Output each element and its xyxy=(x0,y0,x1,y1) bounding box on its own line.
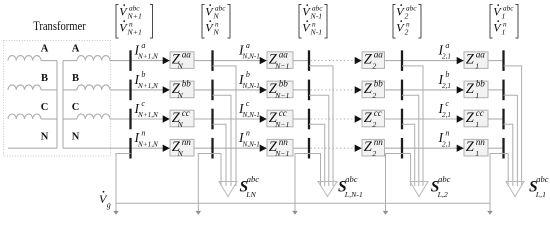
current flow arrowhead phase n section 2 xyxy=(260,145,267,152)
impedance box Zaa N−1 xyxy=(267,49,293,70)
svg-text:c: c xyxy=(246,99,250,108)
svg-text:N: N xyxy=(177,120,184,129)
wire phase a from Z box to next node bus section 1 xyxy=(194,60,213,62)
svg-text:N,N-1: N,N-1 xyxy=(242,140,260,148)
svg-text:cc: cc xyxy=(374,108,382,118)
load tap wire phase a to load SL,2 xyxy=(402,66,423,186)
svg-text:abc: abc xyxy=(536,174,549,184)
wire phase n from node bus to Z box section 2 xyxy=(213,147,268,149)
current flow arrowhead phase c section 4 xyxy=(457,115,464,122)
svg-text:cc: cc xyxy=(279,108,287,118)
bus bar node 1 phase c xyxy=(502,109,504,130)
svg-text:N−1: N−1 xyxy=(274,149,289,158)
bus bar node N+1 phase a xyxy=(129,50,131,71)
wire secondary A coil to node N+1 xyxy=(110,60,131,62)
bus bar node N+1 phase b xyxy=(129,80,131,101)
svg-text:N−1: N−1 xyxy=(274,91,289,100)
svg-text:N: N xyxy=(177,91,184,100)
current label In N+1,N xyxy=(134,128,160,148)
svg-text:N−1: N−1 xyxy=(274,120,289,129)
svg-text:2,1: 2,1 xyxy=(442,140,451,148)
impedance box Zaa 2 xyxy=(362,49,385,70)
wire phase c from Z box to next node bus section 1 xyxy=(194,118,213,120)
ground drop wire at node 1 xyxy=(490,154,504,212)
ground drop wire at node N+1 xyxy=(116,154,131,212)
svg-text:2,1: 2,1 xyxy=(442,53,451,61)
ground drop wire at node N-1 xyxy=(295,154,309,212)
current label Ic 2,1 xyxy=(438,99,451,119)
wire secondary C coil to node N+1 xyxy=(110,118,131,120)
svg-text:N+1: N+1 xyxy=(127,27,142,36)
svg-text:1: 1 xyxy=(475,120,479,129)
current flow arrowhead phase n section 3 xyxy=(355,145,362,152)
svg-text:bb: bb xyxy=(182,79,192,89)
svg-text:N,N-1: N,N-1 xyxy=(242,111,260,119)
load power label SL,2 xyxy=(431,174,451,199)
wire phase n from node bus to Z box section 1 xyxy=(131,147,171,149)
svg-text:N−1: N−1 xyxy=(274,62,289,71)
svg-text:2,1: 2,1 xyxy=(442,82,451,90)
current label Ia N+1,N xyxy=(134,41,160,61)
wire phase c from Z box to next node bus section 4 xyxy=(488,118,504,120)
current label Ib N,N-1 xyxy=(238,70,260,90)
svg-text:N,N-1: N,N-1 xyxy=(242,53,260,61)
current flow arrowhead phase n section 4 xyxy=(457,145,464,152)
wire phase c from Z box to next node bus section 2 xyxy=(293,118,309,120)
svg-text:Z: Z xyxy=(466,52,475,68)
wire phase a dotted continuation node N-1 toward node 2 xyxy=(311,60,357,62)
wire secondary star point to A coil xyxy=(63,60,77,62)
wire secondary B coil to node N+1 xyxy=(110,89,131,91)
svg-text:aa: aa xyxy=(374,49,384,59)
svg-text:N,N-1: N,N-1 xyxy=(242,82,260,90)
current flow arrowhead phase a section 4 xyxy=(457,57,464,64)
svg-text:1: 1 xyxy=(475,149,479,158)
impedance box Zaa 1 xyxy=(464,49,488,70)
wire phase b from node bus to Z box section 4 xyxy=(402,89,464,91)
current label Ib N+1,N xyxy=(134,70,160,90)
svg-text:g: g xyxy=(107,201,111,210)
bus bar node N phase b xyxy=(211,80,213,101)
wire phase n from Z box to next node bus section 3 xyxy=(385,147,403,149)
svg-text:nn: nn xyxy=(374,137,384,147)
wire phase a from node bus to Z box section 2 xyxy=(213,60,268,62)
svg-text:bb: bb xyxy=(476,79,486,89)
svg-text:c: c xyxy=(141,99,145,108)
wire phase a from Z box to next node bus section 3 xyxy=(385,60,403,62)
svg-text:b: b xyxy=(445,70,449,79)
node voltage vector [Vabc Vn] node 2 xyxy=(393,3,421,38)
wire phase c from Z box to next node bus section 3 xyxy=(385,118,403,120)
wire phase n from Z box to next node bus section 4 xyxy=(488,147,504,149)
wire primary neutral N xyxy=(8,147,57,149)
load triangle SLN xyxy=(219,182,237,197)
current flow arrowhead phase c section 1 xyxy=(163,115,170,122)
impedance box Zcc 1 xyxy=(464,108,488,129)
bus bar node 2 phase n xyxy=(401,138,403,159)
current label Ic N,N-1 xyxy=(238,99,260,119)
wire phase b from Z box to next node bus section 2 xyxy=(293,89,309,91)
svg-text:A: A xyxy=(72,44,80,55)
svg-text:a: a xyxy=(445,41,449,50)
transformer primary winding C xyxy=(8,114,41,119)
svg-text:1: 1 xyxy=(502,27,506,36)
node voltage vector [Vabc Vn] node N-1 xyxy=(299,3,327,38)
bus bar node N+1 phase c xyxy=(129,109,131,130)
current flow arrowhead phase b section 1 xyxy=(163,86,170,93)
svg-text:cc: cc xyxy=(182,108,190,118)
svg-text:aa: aa xyxy=(476,49,486,59)
ground arrow at node N+1 xyxy=(113,211,119,215)
ground drop wire at node N xyxy=(198,154,212,212)
svg-text:L,N-1: L,N-1 xyxy=(344,190,363,199)
svg-text:n: n xyxy=(141,128,145,137)
load tap wire phase b to load SL,1 xyxy=(504,95,518,186)
svg-text:nn: nn xyxy=(476,137,486,147)
wire phase b from Z box to next node bus section 4 xyxy=(488,89,504,91)
ground arrow at node N-1 xyxy=(292,211,298,215)
svg-text:bb: bb xyxy=(279,79,289,89)
bus bar node N-1 phase c xyxy=(308,109,310,130)
wire phase n from node bus to Z box section 4 xyxy=(402,147,464,149)
svg-text:Transformer: Transformer xyxy=(33,19,86,33)
wire phase b from node bus to Z box section 2 xyxy=(213,89,268,91)
bus bar node N+1 phase n xyxy=(129,138,131,159)
impedance box Znn 2 xyxy=(362,137,385,158)
wire phase a from node bus to Z box section 4 xyxy=(402,60,464,62)
bus bar node N phase n xyxy=(211,138,213,159)
svg-text:abc: abc xyxy=(438,174,451,184)
load tap wire phase n to load SL,N-1 xyxy=(309,154,321,187)
ground arrow at node 1 xyxy=(487,211,493,215)
transformer primary winding A xyxy=(8,56,41,61)
source ground voltage label Vg xyxy=(99,191,111,210)
svg-text:aa: aa xyxy=(182,49,192,59)
transformer dotted enclosure box xyxy=(4,41,111,157)
transformer secondary winding C xyxy=(77,114,110,119)
impedance box Zcc N xyxy=(170,108,194,129)
svg-text:N: N xyxy=(213,27,220,36)
svg-text:c: c xyxy=(445,99,449,108)
wire phase n from Z box to next node bus section 2 xyxy=(293,147,309,149)
svg-text:abc: abc xyxy=(345,174,358,184)
current label Ib 2,1 xyxy=(438,70,451,90)
load triangle SL,2 xyxy=(410,182,428,197)
wire phase c from node bus to Z box section 2 xyxy=(213,118,268,120)
load tap wire phase b to load SL,2 xyxy=(402,95,419,186)
svg-text:nn: nn xyxy=(182,137,192,147)
impedance box Zaa N xyxy=(170,49,194,70)
svg-text:Z: Z xyxy=(466,110,475,126)
load tap wire phase c to load SLN xyxy=(213,124,227,186)
wire phase b dotted continuation node N-1 toward node 2 xyxy=(311,89,357,91)
current label In N,N-1 xyxy=(238,128,260,148)
bus bar node 2 phase c xyxy=(401,109,403,130)
load tap wire phase c to load SL,1 xyxy=(504,124,513,186)
svg-text:N+1,N: N+1,N xyxy=(137,82,159,90)
svg-text:C: C xyxy=(72,102,80,113)
bus bar node 1 phase a xyxy=(502,50,504,71)
wire primary A coil to star point xyxy=(41,60,57,62)
svg-text:N-1: N-1 xyxy=(310,27,323,36)
svg-text:2: 2 xyxy=(372,120,376,129)
svg-text:b: b xyxy=(141,70,145,79)
svg-text:1: 1 xyxy=(475,62,479,71)
svg-text:N: N xyxy=(177,149,184,158)
svg-text:abc: abc xyxy=(247,174,259,184)
svg-text:B: B xyxy=(41,73,48,84)
wire phase b from Z box to next node bus section 3 xyxy=(385,89,403,91)
current label Ic N+1,N xyxy=(134,99,160,119)
wire phase n dotted continuation node N-1 toward node 2 xyxy=(311,147,357,149)
load triangle SL,1 xyxy=(506,182,524,197)
bus bar node 1 phase n xyxy=(502,138,504,159)
neutral ground rail xyxy=(116,202,490,204)
svg-text:A: A xyxy=(41,44,49,55)
svg-text:N: N xyxy=(72,132,80,143)
impedance box Zbb 1 xyxy=(464,79,488,100)
wire phase a from node bus to Z box section 1 xyxy=(131,60,171,62)
secondary star-point bus xyxy=(62,61,64,149)
svg-text:B: B xyxy=(72,73,79,84)
bus bar node 2 phase b xyxy=(401,80,403,101)
impedance box Znn N−1 xyxy=(267,137,293,158)
load tap wire phase b to load SLN xyxy=(213,95,232,186)
impedance box Znn 1 xyxy=(464,137,488,158)
node voltage vector [Vabc Vn] node N+1 xyxy=(116,3,153,38)
svg-text:Z: Z xyxy=(466,139,475,155)
load tap wire phase n to load SLN xyxy=(213,154,222,187)
impedance box Zbb N−1 xyxy=(267,79,293,100)
wire secondary star point to B coil xyxy=(63,89,77,91)
svg-text:cc: cc xyxy=(476,108,484,118)
current flow arrowhead phase c section 2 xyxy=(260,115,267,122)
svg-text:2: 2 xyxy=(372,91,376,100)
wire phase c dotted continuation node N-1 toward node 2 xyxy=(311,118,357,120)
current flow arrowhead phase a section 2 xyxy=(260,57,267,64)
wire phase b from Z box to next node bus section 1 xyxy=(194,89,213,91)
current flow arrowhead phase a section 3 xyxy=(355,57,362,64)
wire phase c from node bus to Z box section 1 xyxy=(131,118,171,120)
svg-text:N+1,N: N+1,N xyxy=(137,111,159,119)
wire phase n from Z box to next node bus section 1 xyxy=(194,147,213,149)
current flow arrowhead phase n section 1 xyxy=(163,145,170,152)
current flow arrowhead phase b section 4 xyxy=(457,86,464,93)
svg-text:L,2: L,2 xyxy=(437,190,448,199)
svg-text:N: N xyxy=(41,132,49,143)
transformer secondary winding A xyxy=(77,56,110,61)
svg-text:n: n xyxy=(246,128,250,137)
svg-text:bb: bb xyxy=(374,79,384,89)
svg-text:a: a xyxy=(141,41,145,50)
impedance box Znn N xyxy=(170,137,194,158)
svg-text:Z: Z xyxy=(466,81,475,97)
load power label SLN xyxy=(240,174,260,199)
wire primary B coil to star point xyxy=(41,89,57,91)
load power label SL,N-1 xyxy=(338,174,363,199)
load power label SL,1 xyxy=(529,174,549,199)
svg-text:n: n xyxy=(445,128,449,137)
bus bar node 2 phase a xyxy=(401,50,403,71)
load tap wire phase a to load SL,N-1 xyxy=(309,66,333,186)
impedance box Zbb 2 xyxy=(362,79,385,100)
impedance box Zcc N−1 xyxy=(267,108,293,129)
bus bar node 1 phase b xyxy=(502,80,504,101)
svg-text:N+1,N: N+1,N xyxy=(137,140,159,148)
current label In 2,1 xyxy=(438,128,451,148)
load tap wire phase n to load SL,1 xyxy=(504,154,509,187)
ground drop wire at node 2 xyxy=(386,154,403,212)
svg-text:2,1: 2,1 xyxy=(442,111,451,119)
bus bar node N phase c xyxy=(211,109,213,130)
wire secondary star point to C coil xyxy=(63,118,77,120)
bus bar node N phase a xyxy=(211,50,213,71)
load tap wire phase c to load SL,N-1 xyxy=(309,124,325,186)
wire primary C coil to star point xyxy=(41,118,57,120)
current label Ia N,N-1 xyxy=(238,41,260,61)
svg-text:LN: LN xyxy=(245,190,256,199)
svg-text:b: b xyxy=(246,70,250,79)
wire secondary neutral N to node N+1 xyxy=(63,147,131,149)
load tap wire phase c to load SL,2 xyxy=(402,124,415,186)
current flow arrowhead phase b section 2 xyxy=(260,86,267,93)
node voltage vector [Vabc Vn] node 1 xyxy=(490,3,518,38)
load tap wire phase a to load SL,1 xyxy=(504,66,522,186)
load tap wire phase a to load SLN xyxy=(213,66,237,186)
transformer primary winding B xyxy=(8,85,41,90)
bus bar node N-1 phase a xyxy=(308,50,310,71)
ground arrow at node N xyxy=(196,211,202,215)
svg-text:2: 2 xyxy=(405,27,409,36)
current label Ia 2,1 xyxy=(438,41,451,61)
primary star-point bus xyxy=(56,61,58,149)
wire phase a from Z box to next node bus section 2 xyxy=(293,60,309,62)
load tap wire phase n to load SL,2 xyxy=(402,154,411,187)
wire phase a from Z box to next node bus section 4 xyxy=(488,60,504,62)
svg-text:2: 2 xyxy=(372,149,376,158)
transformer secondary winding B xyxy=(77,85,110,90)
impedance box Zcc 2 xyxy=(362,108,385,129)
bus bar node N-1 phase n xyxy=(308,138,310,159)
svg-text:nn: nn xyxy=(279,137,289,147)
svg-text:1: 1 xyxy=(475,91,479,100)
impedance box Zbb N xyxy=(170,79,194,100)
node voltage vector [Vabc Vn] node N xyxy=(202,3,230,38)
current flow arrowhead phase a section 1 xyxy=(163,57,170,64)
svg-text:C: C xyxy=(41,102,49,113)
load triangle SL,N-1 xyxy=(318,182,337,197)
svg-text:aa: aa xyxy=(279,49,289,59)
wire phase c from node bus to Z box section 4 xyxy=(402,118,464,120)
svg-text:N+1,N: N+1,N xyxy=(137,53,159,61)
svg-text:a: a xyxy=(246,41,250,50)
load tap wire phase b to load SL,N-1 xyxy=(309,95,329,186)
current flow arrowhead phase b section 3 xyxy=(355,86,362,93)
current flow arrowhead phase c section 3 xyxy=(355,115,362,122)
ground arrow at node 2 xyxy=(383,211,389,215)
svg-text:L,1: L,1 xyxy=(535,190,546,199)
svg-text:2: 2 xyxy=(372,62,376,71)
svg-text:N: N xyxy=(177,62,184,71)
wire phase b from node bus to Z box section 1 xyxy=(131,89,171,91)
bus bar node N-1 phase b xyxy=(308,80,310,101)
